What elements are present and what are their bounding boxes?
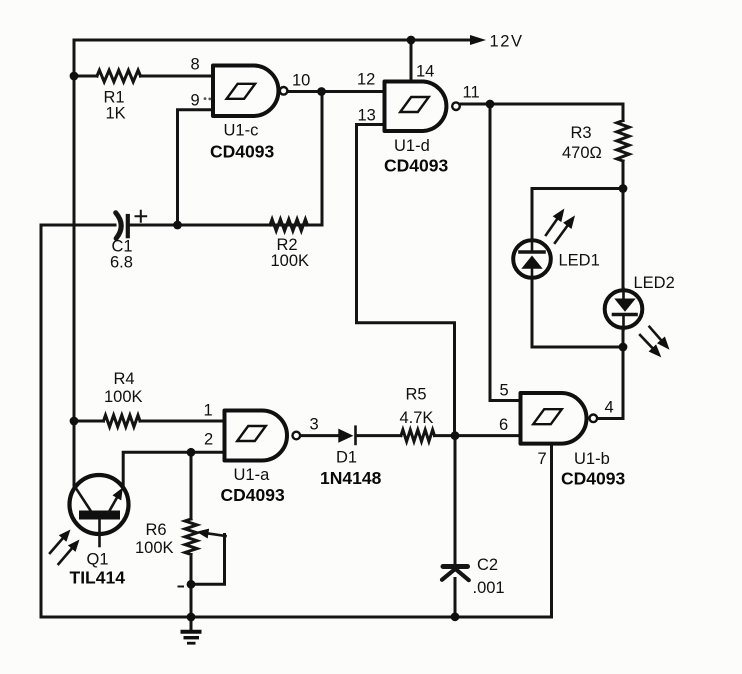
svg-text:C2: C2 (477, 556, 498, 574)
svg-text:Q1: Q1 (87, 551, 109, 569)
svg-text:R6: R6 (146, 521, 167, 539)
svg-text:8: 8 (191, 55, 200, 73)
svg-text:LED1: LED1 (559, 252, 600, 270)
svg-text:2: 2 (204, 431, 213, 449)
svg-text:R3: R3 (571, 124, 592, 142)
svg-text:9: 9 (191, 92, 200, 110)
svg-text:1N4148: 1N4148 (320, 468, 382, 488)
svg-text:6.8: 6.8 (110, 254, 133, 272)
svg-text:4: 4 (605, 399, 614, 417)
svg-text:TIL414: TIL414 (70, 568, 126, 588)
svg-text:4.7K: 4.7K (400, 409, 434, 427)
svg-text:R4: R4 (114, 370, 135, 388)
svg-text:3: 3 (310, 416, 319, 434)
svg-text:U1-d: U1-d (394, 137, 430, 155)
svg-text:LED2: LED2 (634, 274, 675, 292)
svg-text:.001: .001 (473, 579, 505, 597)
svg-text:13: 13 (358, 107, 376, 125)
svg-text:CD4093: CD4093 (561, 469, 625, 489)
svg-text:U1-c: U1-c (224, 122, 259, 140)
svg-text:100K: 100K (135, 539, 174, 557)
svg-text:470Ω: 470Ω (562, 144, 602, 162)
svg-text:5: 5 (500, 382, 509, 400)
svg-text:11: 11 (463, 84, 480, 102)
svg-text:CD4093: CD4093 (210, 142, 274, 162)
svg-text:R5: R5 (406, 386, 427, 404)
svg-text:10: 10 (292, 71, 310, 89)
svg-text:1: 1 (204, 402, 213, 420)
svg-text:1K: 1K (106, 105, 126, 123)
svg-text:U1-a: U1-a (234, 466, 271, 484)
svg-text:12: 12 (357, 71, 375, 89)
svg-text:100K: 100K (271, 252, 310, 270)
svg-text:100K: 100K (104, 388, 143, 406)
svg-text:CD4093: CD4093 (221, 485, 285, 505)
svg-text:D1: D1 (336, 449, 357, 467)
svg-text:6: 6 (499, 416, 508, 434)
svg-text:CD4093: CD4093 (384, 156, 448, 176)
svg-text:14: 14 (416, 63, 434, 81)
svg-text:U1-b: U1-b (574, 450, 610, 468)
svg-text:12V: 12V (490, 33, 524, 51)
svg-text:7: 7 (538, 450, 547, 468)
